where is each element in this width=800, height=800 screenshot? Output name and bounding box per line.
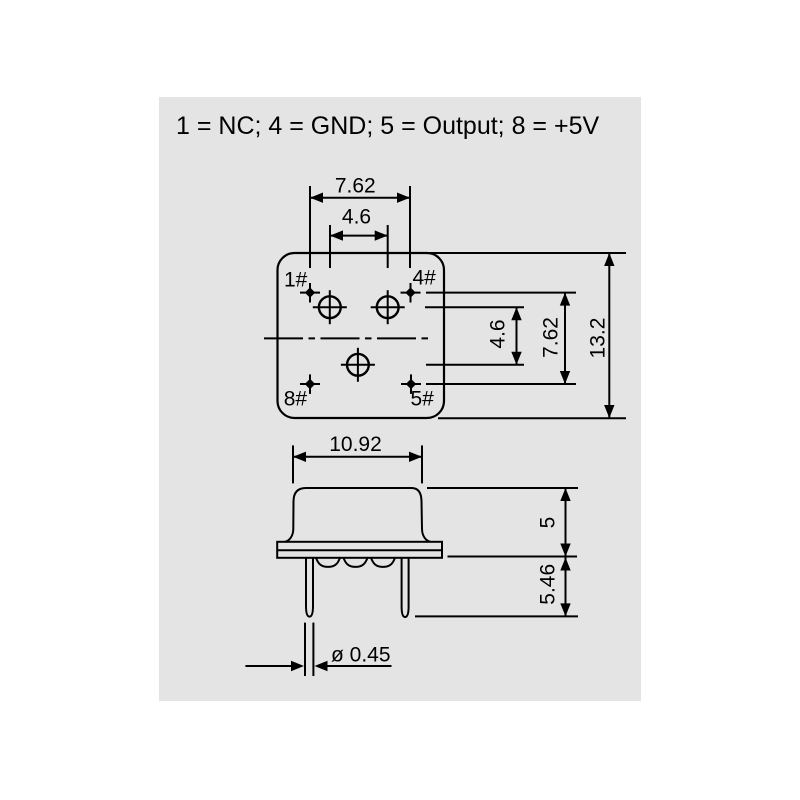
dimension leader right (points left) — [315, 661, 392, 671]
dimension 7.62 vertical — [560, 293, 570, 384]
pin marker 8 — [300, 374, 320, 394]
extension line can right — [421, 445, 423, 483]
svg-text:5#: 5# — [411, 387, 435, 410]
dimension 5.46 vertical — [560, 558, 570, 617]
pin diameter projection line right — [312, 623, 314, 676]
extension line pin4 top — [409, 186, 411, 268]
pin marker 5 — [401, 374, 421, 394]
extension line flange bottom right — [448, 556, 578, 558]
left pin (side view) — [306, 558, 313, 617]
hole bottom — [341, 348, 375, 382]
hole top-right — [371, 290, 405, 324]
gray drawing panel — [159, 97, 641, 701]
dimension 13.2 vertical — [604, 253, 614, 418]
right pin (side view) — [402, 558, 409, 617]
pin marker 1 — [300, 283, 320, 303]
centerline (dash-dot) — [264, 337, 428, 339]
extension line pin4 right — [426, 292, 576, 294]
extension line can left — [292, 445, 294, 483]
pin diameter projection line left — [304, 623, 306, 676]
dimension leader left (points right) — [245, 661, 304, 671]
package outline (top view) — [278, 253, 445, 418]
svg-text:8#: 8# — [284, 388, 308, 411]
svg-text:4.6: 4.6 — [342, 205, 371, 228]
dimension 7.62 horizontal — [310, 193, 410, 203]
svg-text:1 = NC; 4 = GND; 5 = Output; 8: 1 = NC; 4 = GND; 5 = Output; 8 = +5V — [176, 112, 599, 140]
extension line hole-right side — [425, 306, 524, 308]
hole top-left — [313, 290, 347, 324]
svg-text:4.6: 4.6 — [487, 319, 510, 348]
glass seal bumps — [316, 558, 395, 567]
extension line can top right — [427, 487, 578, 489]
extension line pin5 right — [426, 383, 576, 385]
svg-text:13.2: 13.2 — [587, 318, 610, 359]
svg-text:10.92: 10.92 — [329, 433, 382, 456]
extension line hole-right top — [387, 225, 389, 268]
dimension 4.6 vertical — [511, 307, 521, 365]
svg-text:7.62: 7.62 — [540, 317, 563, 358]
pin marker 4 — [401, 283, 421, 303]
svg-text:ø 0.45: ø 0.45 — [331, 644, 391, 667]
extension line pin tip right — [415, 615, 578, 617]
extension line package bottom right — [438, 417, 626, 419]
dimension 4.6 horizontal — [330, 230, 388, 240]
oscillator can body (side view) — [285, 488, 431, 542]
dimension 5 vertical — [560, 488, 570, 557]
extension line pin1 top — [309, 186, 311, 268]
svg-text:5.46: 5.46 — [537, 564, 560, 605]
svg-text:1#: 1# — [284, 269, 308, 292]
svg-text:5: 5 — [537, 517, 560, 529]
extension line package top right — [427, 252, 626, 254]
svg-text:4#: 4# — [413, 267, 437, 290]
extension line hole-left top — [329, 225, 331, 268]
base flange — [277, 542, 442, 558]
extension line bottom hole right — [426, 364, 524, 366]
svg-text:7.62: 7.62 — [335, 175, 376, 198]
dimension 10.92 — [293, 452, 422, 462]
